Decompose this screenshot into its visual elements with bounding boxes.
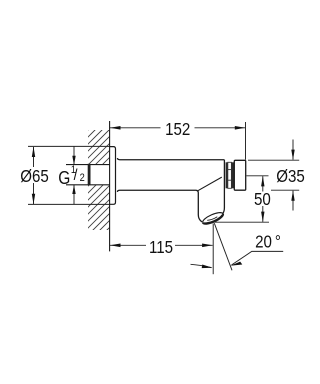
in-wall pipe outline / diameter 65 extension lines xyxy=(28,145,110,147)
svg-text:Ø65: Ø65 xyxy=(20,166,49,187)
G 1/2 thread socket rectangle xyxy=(66,164,110,166)
angle arc arm with arrow pointing at vertical line xyxy=(191,264,213,268)
head 20-degree intersection edge xyxy=(198,177,222,191)
svg-text:2: 2 xyxy=(80,173,85,185)
knob knurled ring 2 xyxy=(231,162,234,188)
50 bottom extension line xyxy=(213,221,269,223)
wall face line (also 152 left extension and 115 left extension) xyxy=(109,121,111,251)
knob knurled ring 1 xyxy=(226,162,228,188)
svg-text:20 °: 20 ° xyxy=(255,231,281,252)
svg-text:G: G xyxy=(58,168,70,189)
20-degree slanted line xyxy=(214,223,232,270)
svg-text:Ø35: Ø35 xyxy=(276,166,305,187)
knob middle band xyxy=(228,162,232,188)
50 dimension line with arrows xyxy=(261,176,264,222)
20-degree leader with arrow pointing at slanted line xyxy=(230,251,283,265)
svg-text:152: 152 xyxy=(165,119,190,140)
G 1/2 dimension line with outside arrows xyxy=(72,146,75,204)
diameter 35 dimension line with outside arrows xyxy=(291,140,294,211)
spout head outline xyxy=(196,160,224,222)
50 top extension line xyxy=(246,175,268,177)
svg-text:50: 50 xyxy=(254,189,271,210)
152 right extension line xyxy=(245,122,247,160)
spout tube outline xyxy=(117,158,224,160)
diameter 65 dimension line with arrows xyxy=(32,147,35,205)
G 1/2 label xyxy=(58,165,85,189)
knob cap xyxy=(234,160,245,190)
flange (escutcheon) xyxy=(110,147,116,205)
outlet inner rim sliver xyxy=(207,217,217,221)
115 dimension line with arrows xyxy=(110,244,213,248)
svg-text:115: 115 xyxy=(149,237,173,258)
152 dimension line with arrows xyxy=(110,126,245,130)
vertical reference line below outlet (115 right extension / angle reference) xyxy=(212,224,214,275)
wall hatching xyxy=(83,103,115,261)
diameter 35 extension lines xyxy=(248,159,299,161)
